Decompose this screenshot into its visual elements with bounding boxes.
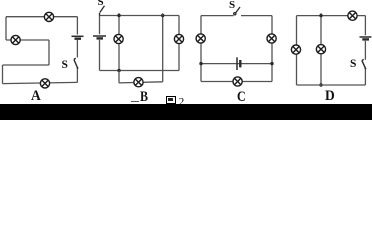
node C rail-right junction — [270, 62, 273, 65]
label D — [325, 89, 335, 104]
battery D — [360, 37, 372, 39]
label S (circuit B) — [98, 0, 104, 8]
label 图2 caption — [166, 96, 176, 105]
scan artifact line under label B — [131, 101, 140, 102]
switch S (circuit B, at top-left) — [100, 6, 105, 16]
label S (circuit D) — [350, 59, 356, 71]
switch S (circuit C, in top wire) — [234, 7, 240, 15]
battery C (in middle rail) — [237, 57, 240, 70]
lamp A1 (top) — [44, 12, 53, 21]
switch S (circuit A) — [74, 58, 79, 69]
wire D right vertical (switch to bottom) — [364, 69, 366, 85]
lamp B2 (right branch) — [174, 34, 183, 43]
wire C top-right segment — [241, 15, 272, 17]
wire C left vertical — [200, 16, 202, 82]
wire B lower-branch horizontal — [119, 82, 163, 83]
lamp D1 (left) — [291, 45, 300, 54]
label B — [140, 90, 148, 105]
lamp C2 (right) — [267, 34, 276, 43]
wire C middle rail — [201, 63, 272, 65]
label C — [237, 90, 246, 105]
wire C right vertical — [271, 16, 273, 82]
wire C top-left segment — [201, 15, 234, 17]
node D top junction — [319, 14, 322, 17]
label S (circuit C) — [229, 0, 235, 11]
wire A bottom — [3, 82, 78, 83]
wire B inner branch vertical — [118, 13, 120, 70]
lamp D3 (top wire) — [348, 11, 357, 20]
lamp C3 (bottom) — [233, 77, 242, 86]
wire A left-lower vertical — [2, 65, 4, 84]
lamp B1 (inner branch) — [114, 34, 123, 43]
wire D top — [297, 15, 366, 17]
lamp D2 (middle) — [316, 45, 325, 54]
lamp A2 (middle) — [11, 35, 20, 44]
node B top-right junction — [161, 14, 164, 17]
bottom black bar — [0, 104, 372, 121]
wire B bottom — [100, 70, 180, 72]
wire B lower-branch riser (crosses bottom wire) — [162, 16, 164, 82]
node D bottom junction — [319, 83, 322, 86]
lamp C1 (left) — [196, 34, 205, 43]
wire A top — [6, 16, 77, 18]
node B bottom-inner junction — [117, 69, 120, 72]
wire A right vertical (switch to bottom corner) — [76, 69, 78, 83]
battery A — [72, 36, 84, 38]
node C rail-left junction — [199, 62, 202, 65]
wire A left-upper vertical — [5, 17, 7, 40]
wire A right vertical (battery to switch) — [76, 40, 78, 58]
wire D right vertical (top to battery) — [364, 16, 366, 36]
wire A serpentine vertical — [48, 40, 50, 65]
label S (circuit A) — [62, 60, 68, 72]
wire B lower-branch drop — [118, 71, 120, 83]
label A — [31, 89, 41, 104]
wire B top — [100, 15, 180, 17]
wire D bottom — [297, 84, 366, 86]
switch S (circuit D) — [362, 59, 366, 69]
wire A middle-upper horizontal — [6, 39, 49, 41]
node B top-inner junction — [117, 14, 120, 17]
wire D right vertical (battery to switch) — [364, 41, 366, 60]
wire A middle-lower horizontal — [3, 64, 50, 66]
lamp B3 (lower branch) — [134, 78, 143, 87]
wire B left vertical (corner to battery) — [99, 16, 101, 35]
wire D left vertical — [296, 16, 298, 85]
lamp A3 (bottom) — [40, 79, 49, 88]
wire B left vertical (battery to bottom corner) — [99, 40, 101, 71]
wire D middle vertical — [320, 13, 322, 85]
wire A right vertical (top to battery) — [76, 17, 78, 35]
wire B right vertical — [178, 16, 180, 71]
wire C bottom — [201, 81, 272, 83]
battery B — [93, 36, 106, 38]
